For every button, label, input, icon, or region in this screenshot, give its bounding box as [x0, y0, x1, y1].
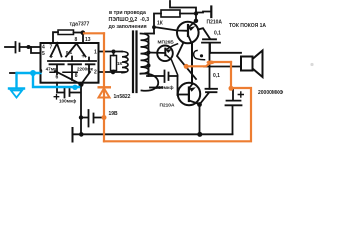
wire to pin 5 — [31, 47, 41, 53]
wire to pin 4 — [29, 46, 41, 48]
svg-text:8: 8 — [75, 73, 78, 79]
wire pin 1 output — [99, 51, 123, 53]
transistor Q driver circle — [177, 22, 199, 44]
wire pin 8 drop — [82, 33, 84, 43]
svg-text:13: 13 — [85, 37, 91, 43]
node orange mid right — [207, 61, 215, 65]
transistor МП26Б emitter diagonal — [166, 55, 178, 75]
svg-text:6: 6 — [56, 74, 59, 80]
svg-text:7: 7 — [50, 45, 53, 51]
transistor П210А lower base bar — [188, 88, 190, 102]
svg-text:до заполнения: до заполнения — [109, 24, 147, 30]
svg-text:П210А: П210А — [160, 103, 175, 109]
wire hook squiggle — [194, 51, 205, 60]
transformer core — [133, 32, 137, 93]
svg-text:в три провода: в три провода — [109, 10, 146, 16]
wire R1K-top left lead — [154, 14, 161, 34]
svg-text:+: + — [81, 54, 85, 60]
op-amp triangle A — [51, 44, 62, 57]
node rail-81 — [79, 132, 84, 137]
node rail-200 — [197, 132, 202, 137]
terminal bar + supply — [210, 7, 212, 18]
node hook dot — [200, 54, 203, 57]
svg-text:1К: 1К — [157, 21, 164, 27]
wire input ground stub — [10, 72, 17, 74]
svg-text:П210А: П210А — [207, 20, 223, 26]
inductor T1 primary winding — [122, 52, 128, 73]
node orange collector — [184, 64, 189, 69]
wire П210А lower base — [178, 94, 189, 96]
svg-text:МП26Б: МП26Б — [158, 40, 175, 46]
transistor МП26Б arrowhead — [166, 49, 172, 53]
capacitor 0.1 lower right — [206, 89, 218, 92]
wire emitter lower to rail — [199, 105, 201, 135]
node junction 81-83 — [78, 82, 83, 87]
wire speaker top — [210, 52, 241, 54]
svg-text:ТОК ПОКОЯ 1А: ТОК ПОКОЯ 1А — [229, 23, 266, 29]
transistor Q driver arrowhead — [188, 26, 195, 31]
svg-text:2200мк: 2200мк — [77, 67, 94, 72]
label + of 100мкф — [54, 95, 59, 100]
svg-text:1: 1 — [94, 50, 97, 56]
node pin8 top junction — [81, 30, 86, 35]
node emitter lower — [197, 102, 202, 107]
wire pin 2 output — [99, 71, 126, 73]
wire driver to 0.1 cap — [198, 28, 210, 39]
node pin1-R1K junction — [112, 50, 116, 54]
node faint mark — [310, 63, 313, 66]
label + of 20000МКФ — [238, 92, 243, 97]
wire R1K leads — [113, 52, 115, 73]
node base branch — [152, 25, 156, 29]
capacitor 47мк inside IC — [48, 61, 65, 75]
inductor T1 secondary winding — [141, 34, 149, 74]
svg-text:8: 8 — [75, 37, 78, 43]
wire secondary bottom lead — [150, 87, 162, 89]
wire bottom rail — [73, 133, 233, 135]
capacitor 20000МКФ — [226, 89, 242, 134]
transistor МП26Б base bar — [164, 49, 166, 56]
ground symbol cyan — [11, 91, 22, 98]
inductor T1 secondary big bottom loop — [141, 73, 159, 90]
node junction 81-117 — [79, 115, 83, 119]
svg-text:20000МКФ: 20000МКФ — [258, 90, 284, 96]
svg-text:0,1: 0,1 — [214, 31, 221, 37]
wire emitter to 0.1 cap diagonal — [200, 93, 210, 105]
svg-text:0,1: 0,1 — [213, 73, 220, 79]
svg-text:тда7377: тда7377 — [70, 22, 90, 28]
capacitor 2200мк inside IC — [84, 58, 96, 73]
wire orange supply loop — [84, 33, 251, 141]
svg-text:4: 4 — [42, 45, 45, 51]
wire vertical right bus — [209, 44, 211, 89]
transistor Q driver emitter diagonal — [188, 35, 192, 44]
speaker LS1 box — [241, 57, 253, 71]
wire driver emitter lower diagonal — [177, 44, 196, 80]
svg-text:47мк: 47мк — [46, 67, 58, 72]
node orange 19В tap — [102, 115, 107, 120]
resistor R-feedback above IC — [58, 30, 74, 35]
wire speaker bottom — [204, 66, 241, 68]
wire R-feedback right lead — [74, 32, 85, 34]
capacitor 820мкф — [147, 71, 178, 83]
wire input lead — [5, 46, 14, 48]
node tap upper — [147, 51, 151, 55]
wire base drop — [195, 14, 197, 22]
svg-text:820мкф: 820мкф — [156, 84, 174, 91]
svg-text:1n5822: 1n5822 — [114, 94, 131, 100]
node pin2-R1K junction — [111, 70, 115, 74]
wire secondary tap line — [148, 38, 150, 77]
node cyan pin9 — [30, 70, 36, 76]
terminal bar rail left — [72, 128, 74, 142]
wire R-feedback left lead to pin 7 — [53, 32, 58, 43]
svg-text:ПЭЛШО 0,2 -0,3: ПЭЛШО 0,2 -0,3 — [109, 17, 150, 23]
transistor П210А lower circle — [178, 83, 200, 105]
svg-text:9: 9 — [40, 69, 43, 75]
node driver base top — [194, 11, 198, 15]
capacitor C-in (input coupling) — [16, 42, 29, 53]
wire R1K-top right lead — [180, 13, 196, 15]
wire to terminal bar — [196, 12, 211, 13]
wire cyan signal ground bus — [9, 73, 79, 98]
node cyan right end — [72, 85, 77, 90]
wire loop above R1K-top — [170, 1, 196, 14]
svg-text:100мкф: 100мкф — [59, 98, 76, 104]
capacitor 0.1 inside IC — [67, 57, 83, 81]
svg-text:5: 5 — [42, 51, 45, 57]
node orange cap junction — [229, 86, 234, 91]
diode 1n5822 — [98, 87, 112, 97]
wire driver collector down — [191, 44, 193, 84]
svg-text:+: + — [50, 55, 54, 61]
transistor П210А lower emitter diagonal — [189, 101, 199, 104]
wire driver base from transformer — [154, 27, 188, 31]
node input junction — [27, 45, 31, 49]
node base on circle — [194, 19, 198, 23]
wire 820мкф to base of lower П210А — [177, 76, 179, 95]
resistor R 1К vertical — [111, 56, 117, 71]
wire main ground drop — [80, 84, 82, 134]
svg-text:0,1: 0,1 — [66, 50, 73, 55]
op-amp triangle B — [66, 44, 86, 57]
capacitor 100мкф — [57, 83, 80, 98]
svg-text:2: 2 — [94, 70, 97, 76]
transistor Q driver collector diagonal — [189, 21, 197, 28]
wire IC internal bus — [50, 71, 77, 73]
svg-text:1К: 1К — [117, 61, 123, 66]
speaker LS1 cone — [253, 51, 263, 78]
node tap lower — [147, 64, 151, 68]
capacitor 0.1 upper right — [202, 39, 220, 53]
transistor Q driver base bar — [187, 25, 189, 36]
transistor П210А lower arrowhead — [189, 87, 196, 92]
svg-text:19В: 19В — [109, 111, 119, 117]
wire МП26Б base — [149, 52, 166, 55]
transistor МП26Б circle — [157, 46, 173, 62]
resistor R 1К top — [161, 10, 180, 17]
transistor П210А lower collector diagonal — [189, 85, 192, 89]
transistor МП26Б collector diagonal to driver — [166, 44, 178, 50]
op-amp U1 (IC тда7377 body) — [41, 43, 99, 83]
wire secondary top lead — [145, 33, 154, 35]
wire IC bottom V notch — [55, 71, 90, 84]
capacitor 19В sense — [81, 110, 104, 127]
